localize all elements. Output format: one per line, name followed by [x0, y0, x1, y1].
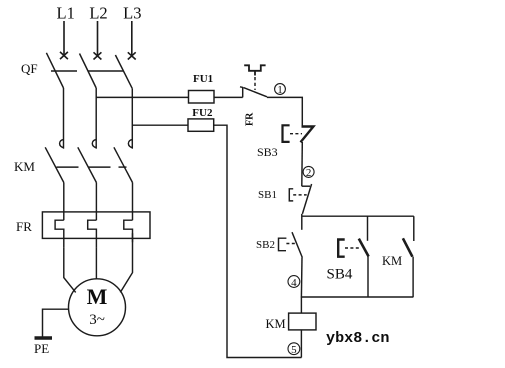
junction wire to branch top [301, 214, 303, 230]
svg-text:FU1: FU1 [193, 73, 213, 85]
ground bar PE [35, 336, 53, 340]
svg-text:SB3: SB3 [257, 145, 278, 159]
node 4 circle [288, 276, 300, 288]
SB4 branch lower wire [367, 257, 369, 298]
FR heater element3 [124, 220, 133, 242]
SB3 dashed link [290, 133, 302, 135]
wire phase2 KM to FR [95, 183, 97, 221]
SB1 blade [302, 184, 311, 214]
QF pole1 X terminal [60, 52, 68, 59]
QF pole2 blade [80, 54, 97, 89]
wire phase1 QF to KM [63, 88, 65, 149]
svg-text:L3: L3 [123, 4, 141, 23]
wire FR contact to corner [267, 97, 302, 126]
svg-text:3~: 3~ [89, 312, 105, 328]
SB3 button bracket [283, 125, 290, 142]
KM pole1 fixed contact arc [60, 140, 64, 148]
svg-text:FR: FR [16, 219, 32, 234]
QF pole3 X terminal [128, 52, 136, 59]
wire FU1 feed from phase2 [96, 96, 188, 98]
wire phase2 FR to motor [95, 248, 97, 279]
wire FU1 to FR contact [214, 96, 243, 98]
wire SB3 to node2 [301, 142, 304, 186]
KM pole2 blade [78, 147, 97, 182]
SB1 dashed link [293, 194, 307, 196]
svg-text:L1: L1 [57, 4, 75, 23]
fuse FU1 [189, 91, 215, 104]
SB4 button bracket [338, 240, 345, 257]
svg-text:PE: PE [34, 341, 49, 356]
node 2 circle [303, 166, 314, 177]
svg-text:5: 5 [291, 344, 297, 356]
svg-text:KM: KM [14, 159, 35, 174]
svg-text:FU2: FU2 [192, 107, 213, 119]
wire phase3 QF to KM [131, 89, 133, 149]
svg-text:QF: QF [21, 61, 38, 76]
SB1 fixed tick [302, 185, 310, 187]
QF linkage bar [51, 70, 124, 72]
svg-text:KM: KM [266, 317, 286, 331]
branch box top wire [302, 215, 414, 217]
node 1 circle [275, 84, 286, 95]
SB3 NC blade [301, 127, 314, 143]
QF pole2 X terminal [94, 52, 102, 59]
svg-text:M: M [87, 284, 108, 309]
SB4 branch upper wire [367, 216, 369, 241]
KM pole3 blade [114, 147, 133, 182]
KM pole2 fixed contact arc [92, 140, 96, 148]
FR box [42, 212, 150, 239]
KM linkage dashes [57, 166, 127, 168]
wire PE to motor [43, 309, 70, 337]
KM pole3 fixed contact arc [128, 140, 132, 148]
wire coil to bottom [300, 330, 302, 358]
wire phase3 FR to motor [120, 233, 132, 292]
KM pole1 blade [45, 147, 64, 182]
wire phase2 QF to KM [95, 88, 97, 149]
FR heater element2 [88, 220, 97, 247]
wire node4 junction to coil [300, 297, 302, 313]
motor M [69, 279, 126, 336]
SB2 blade [292, 232, 302, 257]
wire FU2 return down [214, 125, 302, 357]
SB1 button bracket [289, 189, 293, 201]
svg-text:SB1: SB1 [258, 189, 277, 201]
FR heater element1 [55, 220, 64, 247]
FR trip element symbol [244, 65, 265, 75]
node 5 circle [288, 343, 300, 355]
branch box bottom wire [301, 296, 414, 298]
FR NC contact fixed tick [240, 87, 243, 98]
wire phase1 KM to FR [63, 183, 65, 221]
svg-text:FR: FR [245, 112, 256, 126]
supply arrow L1 [63, 21, 65, 56]
QF pole3 blade [115, 55, 132, 89]
FR NC contact blade [244, 88, 268, 97]
svg-text:SB4: SB4 [327, 267, 353, 283]
KM aux branch lower wire [412, 257, 414, 297]
wire FU2 feed from phase3 [132, 124, 188, 126]
SB4 dashed link [345, 247, 360, 249]
KM aux branch upper wire [413, 216, 415, 241]
FR dashed link [254, 77, 256, 90]
SB2 button bracket [279, 238, 287, 251]
svg-text:4: 4 [291, 277, 297, 289]
supply arrow L3 [131, 21, 133, 56]
svg-text:L2: L2 [89, 4, 107, 23]
coil KM [289, 313, 316, 330]
SB2 dashed link [286, 243, 295, 245]
svg-text:ybx8.cn: ybx8.cn [326, 331, 390, 347]
svg-text:2: 2 [306, 167, 312, 179]
supply arrow L2 [97, 21, 99, 56]
wire SB2 to node4 [300, 258, 303, 298]
svg-text:KM: KM [382, 254, 402, 268]
wire phase1 FR to motor [64, 248, 76, 293]
QF pole1 blade [46, 53, 63, 88]
KM aux blade [403, 238, 413, 256]
svg-text:1: 1 [277, 84, 283, 96]
fuse FU2 [188, 119, 214, 131]
svg-text:SB2: SB2 [256, 239, 275, 251]
SB4 blade [359, 239, 369, 257]
wire phase3 KM to FR [132, 183, 134, 221]
